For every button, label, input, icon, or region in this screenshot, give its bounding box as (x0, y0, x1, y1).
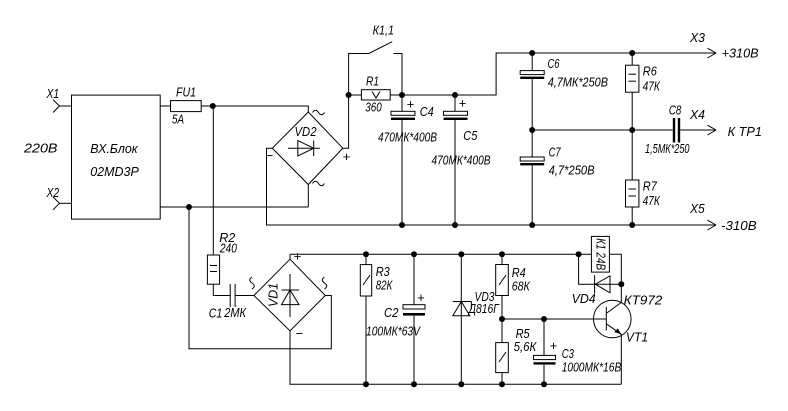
svg-text:R7: R7 (643, 180, 658, 194)
svg-text:4,7МК*250В: 4,7МК*250В (548, 76, 608, 90)
wire (201, 105, 213, 107)
relay coil K1 24В (591, 236, 609, 272)
svg-text:+: + (459, 96, 467, 111)
connector X1 (46, 87, 60, 113)
resistor R6 47К (626, 53, 661, 130)
svg-text:C6: C6 (548, 57, 560, 71)
svg-text:360: 360 (365, 101, 382, 115)
node: R6/R7 junction (629, 127, 635, 133)
wire (low-voltage top rail) (290, 253, 591, 255)
svg-text:+: + (550, 338, 558, 353)
svg-text:+: + (343, 149, 351, 164)
capacitor C1 2МК (209, 284, 247, 321)
svg-text:470МК*400В: 470МК*400В (378, 131, 437, 145)
node: VD4 top junction (576, 251, 582, 257)
connector X3 +310В (689, 31, 759, 61)
connector X5 -310В (689, 202, 757, 233)
svg-text:X2: X2 (46, 186, 60, 200)
svg-text:C2: C2 (384, 306, 398, 320)
svg-text:+310В: +310В (722, 47, 759, 61)
svg-text:VD4: VD4 (572, 292, 596, 306)
bridge rectifier VD1 (250, 249, 327, 342)
node: C7 bottom (529, 222, 535, 228)
svg-text:+: + (417, 290, 425, 305)
svg-text:470МК*400В: 470МК*400В (432, 154, 491, 168)
svg-text:2МК: 2МК (223, 306, 246, 320)
wire (bridge + up to R1 node) (343, 95, 349, 148)
svg-text:-310В: -310В (721, 219, 757, 233)
connector X4 К ТР1 (689, 108, 762, 139)
capacitor C6 4,7МК*250В (520, 53, 608, 130)
svg-text:С8: С8 (669, 104, 681, 118)
wire (402, 94, 455, 96)
node: C6 top junction (529, 50, 535, 56)
flyback diode VD4 (572, 254, 622, 306)
node: C4 top junction (399, 92, 405, 98)
svg-text:КТ972: КТ972 (624, 294, 663, 308)
svg-text:47К: 47К (643, 194, 661, 208)
node: R3 bottom (363, 381, 369, 387)
svg-text:X4: X4 (689, 108, 705, 122)
node: C4 bottom (399, 222, 405, 228)
node: R3 top (363, 251, 369, 257)
node: R6 top junction (629, 50, 635, 56)
node: R4 top (499, 251, 505, 257)
relay contact K1,1 (349, 24, 402, 96)
wire (213, 284, 230, 295)
svg-text:1,5МК*250: 1,5МК*250 (645, 142, 690, 156)
svg-text:C7: C7 (549, 146, 562, 160)
capacitor C7 4,7*250В (520, 130, 594, 225)
node: R1 left junction (346, 92, 352, 98)
svg-text:02MD3Р: 02MD3Р (90, 165, 139, 179)
svg-text:К1,1: К1,1 (373, 24, 394, 38)
capacitor C4 470МК*400В (378, 95, 437, 225)
input block A1 ВХ.Блок 02MD3Р (72, 95, 161, 219)
capacitor C3 1000МК*16В (534, 319, 622, 384)
svg-text:Д816Г: Д816Г (467, 302, 500, 316)
bridge rectifier VD2 (266, 110, 351, 186)
svg-text:R3: R3 (376, 265, 390, 279)
wire (60, 202, 72, 204)
svg-text:X3: X3 (689, 31, 705, 45)
wire (-310 bottom rail from bridge minus) (267, 148, 717, 225)
wire to R2 (crosses neutral, no junction) (212, 106, 214, 255)
node: VD3 top (458, 251, 464, 257)
svg-text:C3: C3 (562, 347, 574, 361)
svg-text:−: − (296, 326, 304, 341)
svg-text:47К: 47К (643, 80, 661, 94)
svg-text:68К: 68К (512, 280, 531, 294)
node: C3 top junction (541, 316, 547, 322)
svg-text:К ТР1: К ТР1 (728, 125, 762, 139)
svg-text:220В: 220В (23, 142, 58, 156)
svg-text:FU1: FU1 (176, 86, 196, 100)
svg-text:C5: C5 (463, 129, 477, 143)
capacitor C8 1,5МК*250 (645, 104, 716, 156)
wire (middle rail to C8) (532, 129, 673, 131)
svg-text:R6: R6 (643, 65, 657, 79)
svg-text:К1 24В: К1 24В (593, 238, 607, 270)
wire (60, 105, 72, 107)
node: R4/R5 junction (499, 316, 505, 322)
svg-text:240: 240 (219, 242, 237, 256)
resistor R5 5,6К (496, 327, 537, 384)
node: R7 bottom (629, 222, 635, 228)
wire (235, 295, 254, 297)
svg-text:R4: R4 (512, 266, 526, 280)
transistor VT1 КТ972 (594, 284, 663, 384)
wire (coil right to collector) (609, 254, 621, 284)
svg-text:C4: C4 (420, 105, 434, 119)
node: R5 bottom (499, 381, 505, 387)
svg-text:4,7*250В: 4,7*250В (549, 164, 595, 178)
svg-text:100МК*63V: 100МК*63V (366, 325, 421, 339)
node: VD3 bottom (458, 381, 464, 387)
svg-text:5А: 5А (172, 113, 184, 127)
wire (bridge VD2 bottom lead) (307, 185, 309, 208)
capacitor C2 100МК*63V (366, 254, 425, 384)
svg-text:1000МК*16В: 1000МК*16В (562, 361, 622, 375)
svg-text:VD2: VD2 (295, 125, 317, 139)
node: C2 top (411, 251, 417, 257)
node: fuse output junction (210, 103, 216, 109)
wire (base drive) (502, 318, 606, 320)
svg-text:82К: 82К (376, 279, 393, 293)
resistor R1 360 (349, 75, 402, 115)
svg-text:C1: C1 (209, 307, 223, 321)
node: C5 top junction (452, 92, 458, 98)
connector X2 (46, 186, 60, 210)
node: C5 bottom (452, 222, 458, 228)
capacitor C5 470МК*400В (432, 95, 491, 225)
svg-text:VT1: VT1 (626, 331, 648, 345)
svg-text:+: + (407, 97, 415, 112)
svg-text:X1: X1 (46, 87, 60, 101)
svg-text:R1: R1 (366, 75, 379, 89)
svg-text:5,6К: 5,6К (514, 340, 537, 354)
wire (neutral drop to VD1 right corner) (189, 207, 331, 349)
node: VD4 anode junction (618, 281, 624, 287)
svg-text:+: + (294, 249, 302, 264)
wire (VD1 plus stub) (289, 254, 291, 259)
resistor R2 240 (207, 231, 237, 284)
svg-text:ВХ.Блок: ВХ.Блок (90, 142, 139, 156)
zener diode VD3 Д816Г (453, 254, 500, 384)
svg-text:X5: X5 (689, 202, 705, 216)
wire (VD1 minus lead and bottom rail) (290, 331, 621, 384)
wire (160, 105, 170, 107)
wire (neutral from block to bridge VD2) (160, 206, 308, 208)
resistor R7 47К (626, 130, 661, 225)
svg-text:R5: R5 (516, 327, 530, 341)
wire (213, 106, 308, 112)
wire (up to +310 rail) (455, 53, 716, 95)
resistor R4 68К (496, 254, 531, 342)
fuse FU1 5А (171, 86, 202, 127)
node: C2 bottom (411, 381, 417, 387)
resistor R3 82К (360, 254, 392, 384)
node: middle rail left junction (529, 127, 535, 133)
node: C3 bottom (541, 381, 547, 387)
node: neutral tap junction (186, 204, 192, 210)
svg-text:VD1: VD1 (267, 283, 281, 307)
